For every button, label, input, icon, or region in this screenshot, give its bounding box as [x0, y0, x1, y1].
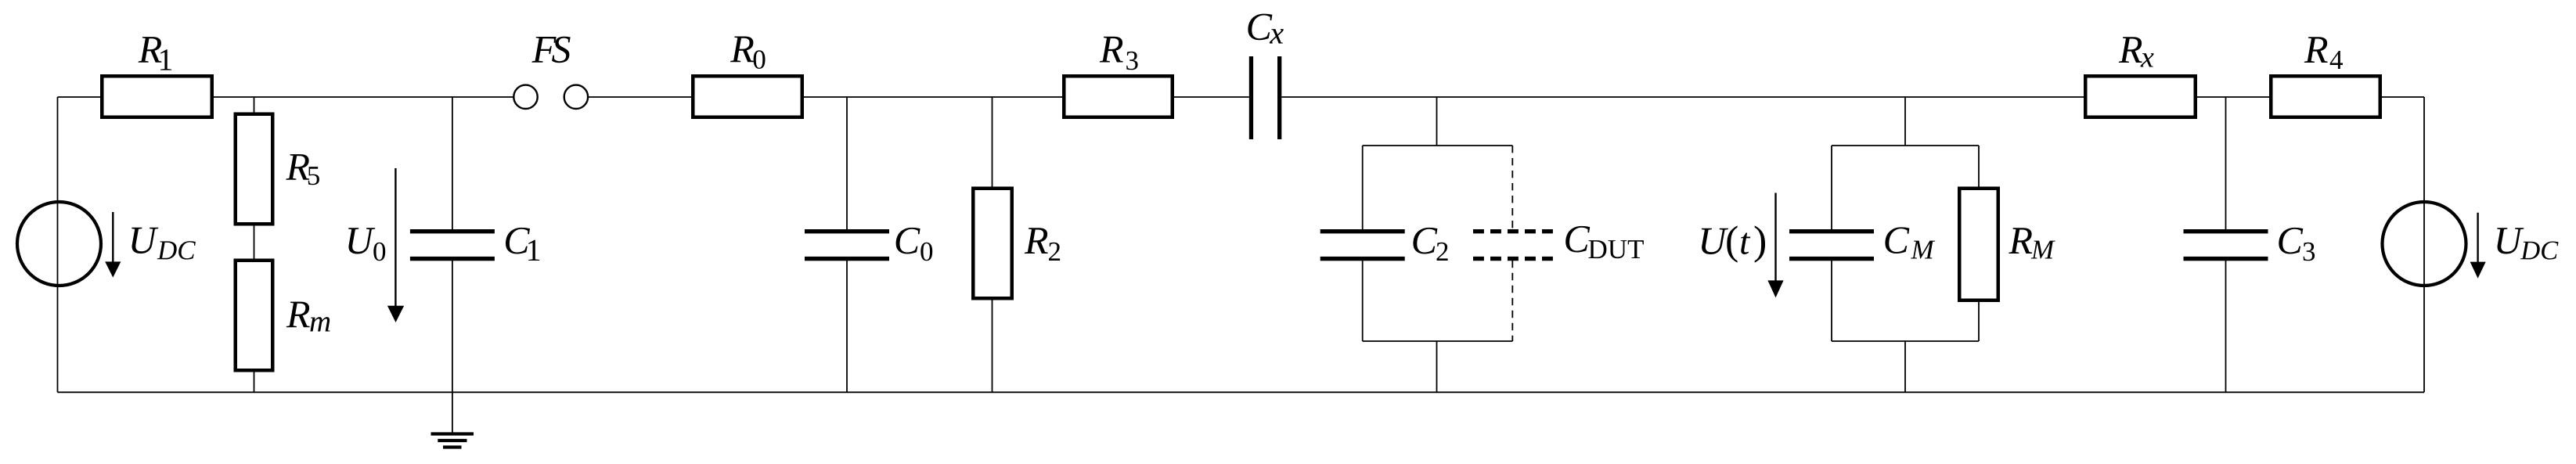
wire bottom bus — [58, 391, 2425, 393]
wire top bus: R1 to FS left contact (junctions at R5 branch and C1 branch) — [212, 96, 513, 98]
resistor R1 — [102, 76, 212, 117]
wire left vertical through left source — [57, 97, 59, 392]
wire top bus: FS right contact to R0 — [588, 96, 693, 98]
capacitor CM plates — [1789, 229, 1874, 233]
label FS — [531, 37, 570, 63]
wire right vertical through right source — [2423, 97, 2425, 392]
label U(t) — [1702, 225, 1765, 262]
capacitor C2 plates — [1320, 229, 1405, 233]
label C3 — [2279, 228, 2315, 261]
arrow U_0 — [387, 168, 404, 322]
label R2 — [1025, 228, 1060, 261]
label C1 — [506, 228, 539, 261]
wire C2 left branch lower — [1362, 261, 1364, 341]
label Rm — [286, 302, 330, 332]
wire Rm to bottom bus — [254, 372, 255, 392]
label Rx — [2119, 37, 2154, 67]
wire top bus: Rx to R4 (junction at C3 branch) — [2196, 96, 2271, 98]
wire CM block bottom stub — [1904, 341, 1906, 392]
wire C2 left branch upper — [1362, 146, 1364, 230]
wire RM branch upper — [1978, 146, 1980, 189]
resistor Rx — [2085, 76, 2196, 117]
label C2 — [1413, 228, 1447, 261]
capacitor C3 plates — [2184, 229, 2268, 233]
wire CM left branch lower — [1831, 261, 1832, 341]
wire C2 block top stub — [1436, 97, 1438, 146]
capacitor C0 plates — [805, 229, 889, 233]
ground — [431, 432, 474, 448]
wire CM left branch upper — [1831, 146, 1832, 230]
resistor RM — [1959, 189, 1998, 300]
wire C_DUT dashed branch lower — [1511, 261, 1513, 341]
label CM — [1885, 227, 1935, 258]
wire top bus: Cx right plate to Rx (junctions at C2 and CM stubs) — [1281, 96, 2085, 98]
wire C2 block top rail — [1363, 145, 1513, 146]
arrow U_DC left — [105, 212, 121, 278]
switch FS right contact — [564, 85, 588, 109]
wire C1 bottom plate to bottom bus — [452, 261, 453, 393]
label R3 — [1100, 37, 1138, 70]
wire C2 block bottom rail — [1363, 340, 1513, 342]
label R4 — [2304, 37, 2343, 69]
wire between R5 and Rm — [254, 225, 255, 261]
label U_DC right — [2497, 228, 2558, 259]
wire top bus: R3 to Cx left plate — [1173, 96, 1249, 98]
wire C_DUT dashed branch upper — [1511, 146, 1513, 230]
capacitor Cx plates (series) — [1249, 56, 1253, 139]
voltage source right U_DC — [2383, 202, 2466, 286]
wire ground stub below bottom bus — [452, 392, 453, 433]
wire top bus: R4 to right corner — [2380, 96, 2424, 98]
wire top bus: R0 to R3 (junctions at C0 and R2 branches) — [802, 96, 1064, 98]
wire CM block top stub — [1904, 97, 1906, 146]
label C_DUT — [1565, 226, 1644, 258]
arrow U(t) — [1767, 193, 1783, 298]
label RM — [2009, 228, 2055, 258]
wire CM block top rail — [1832, 145, 1979, 146]
wire C3 bottom plate to bottom bus — [2225, 261, 2227, 393]
capacitor C_DUT dashed plates — [1473, 232, 1553, 259]
resistor R4 — [2271, 76, 2380, 117]
wire R2 branch: top bus to R2 — [992, 97, 993, 189]
wire C0 bottom plate to bottom bus — [846, 261, 848, 393]
wire C2 block bottom stub — [1436, 341, 1438, 392]
label R1 — [139, 37, 172, 70]
voltage source left U_DC — [17, 202, 101, 286]
switch FS left contact — [513, 85, 537, 109]
label R5 — [286, 154, 319, 185]
label Cx — [1248, 14, 1283, 44]
arrow U_DC right — [2470, 213, 2486, 279]
wire top bus: left corner to R1 — [58, 96, 103, 98]
label U_0 — [348, 228, 385, 261]
resistor R3 — [1064, 76, 1173, 117]
label R0 — [730, 37, 766, 69]
wire C1 branch: top bus to C1 top plate — [452, 97, 453, 230]
label C0 — [896, 228, 933, 261]
wire R2 to bottom bus — [992, 298, 993, 392]
capacitor C1 plates — [410, 229, 495, 233]
label U_DC left — [132, 228, 196, 260]
resistor R0 — [693, 76, 802, 117]
wire C0 branch: top bus to C0 top plate — [846, 97, 848, 230]
resistor Rm — [236, 261, 273, 371]
wire RM branch lower — [1978, 300, 1980, 341]
wire C3 branch: top bus to C3 top plate — [2225, 97, 2227, 230]
wire CM block bottom rail — [1832, 340, 1979, 342]
resistor R5 — [236, 114, 273, 225]
wire R5/Rm branch: top bus to R5 — [254, 97, 255, 114]
resistor R2 — [973, 189, 1012, 299]
